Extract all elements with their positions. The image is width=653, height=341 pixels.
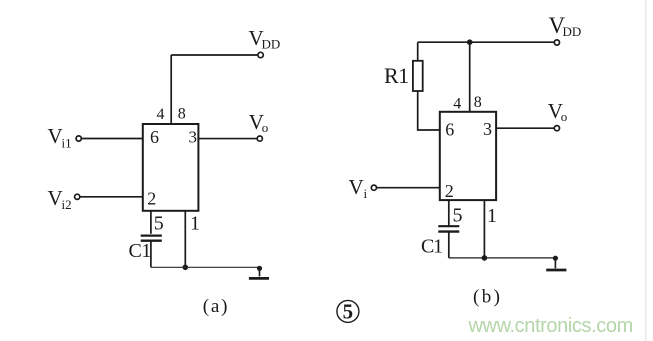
- svg-text:3: 3: [189, 128, 198, 147]
- svg-text:3: 3: [483, 119, 492, 139]
- terminal VDD (b): [554, 40, 559, 45]
- svg-text:V: V: [48, 124, 63, 148]
- svg-text:5: 5: [154, 212, 164, 234]
- figure number 5 circled: [337, 300, 359, 324]
- terminal Vi2: [75, 194, 80, 199]
- ground (b): [546, 256, 566, 270]
- wire Vi1 to pin 6: [82, 138, 143, 140]
- svg-text:6: 6: [445, 120, 454, 140]
- svg-text:i: i: [364, 186, 368, 201]
- wire C1 to bottom rail (b): [448, 232, 450, 258]
- resistor R1 top lead: [417, 42, 419, 61]
- svg-text:5: 5: [343, 300, 354, 324]
- svg-text:8: 8: [474, 94, 482, 111]
- scan edge line right: [645, 0, 647, 341]
- junction pin1/rail (b): [482, 255, 488, 261]
- IC U1 (a): [143, 124, 199, 211]
- svg-text:5: 5: [453, 204, 463, 226]
- svg-text:R1: R1: [384, 63, 409, 88]
- svg-text:www.cntronics.com: www.cntronics.com: [468, 315, 633, 337]
- IC U1 (b): [440, 112, 496, 200]
- svg-text:o: o: [262, 120, 269, 135]
- svg-text:C1: C1: [129, 240, 151, 262]
- svg-text:1: 1: [487, 205, 497, 227]
- capacitor C1 (b) top plate: [438, 225, 459, 227]
- svg-text:2: 2: [445, 181, 454, 201]
- svg-text:(a): (a): [203, 296, 230, 317]
- resistor R1: [413, 61, 423, 91]
- svg-text:8: 8: [178, 106, 186, 123]
- wire pin 1 (b): [483, 200, 485, 258]
- wire C1 to bottom rail (a): [150, 241, 152, 268]
- svg-text:i1: i1: [62, 136, 72, 151]
- capacitor C1 (a) top plate: [141, 235, 162, 237]
- svg-text:(b): (b): [473, 287, 502, 308]
- terminal Vo (b): [554, 126, 559, 131]
- svg-text:i2: i2: [62, 197, 72, 212]
- capacitor C1 (a) bottom plate: [141, 239, 162, 241]
- svg-text:V: V: [48, 186, 63, 210]
- junction pin1/rail (a): [183, 265, 189, 271]
- svg-text:o: o: [561, 109, 568, 124]
- svg-text:DD: DD: [563, 24, 582, 39]
- ground (a): [249, 266, 269, 279]
- svg-text:1: 1: [190, 212, 200, 234]
- resistor R1 bottom lead to pin 6: [418, 91, 440, 130]
- wire bottom rail (b): [449, 257, 553, 259]
- wire Vi2 to pin 2: [80, 196, 143, 198]
- svg-text:4: 4: [157, 106, 165, 123]
- wire bottom rail (a): [151, 266, 259, 268]
- wire pin 3 to Vo (b): [496, 127, 554, 129]
- svg-text:2: 2: [147, 189, 156, 209]
- junction VDD rail / pin8 (b): [467, 39, 473, 45]
- wire pin 4/8 supply (b): [469, 42, 471, 112]
- wire pin 5 (b): [448, 200, 450, 226]
- svg-text:C1: C1: [421, 236, 442, 258]
- svg-text:6: 6: [150, 127, 159, 147]
- svg-text:4: 4: [453, 96, 461, 113]
- wire pin 1 (a): [184, 211, 186, 267]
- terminal Vi (b): [371, 185, 376, 190]
- terminal Vi1: [76, 136, 81, 141]
- terminal VDD (a): [258, 52, 263, 57]
- wire pin 3 to Vo (a): [198, 138, 256, 140]
- terminal Vo (a): [257, 136, 262, 141]
- svg-text:DD: DD: [262, 37, 281, 52]
- svg-text:V: V: [349, 175, 364, 199]
- wire VDD horizontal (a): [171, 54, 257, 56]
- capacitor C1 (b) bottom plate: [438, 230, 459, 232]
- wire pin 5 (a): [150, 211, 152, 234]
- wire VDD rail (b): [418, 41, 554, 43]
- wire Vi to pin 2 (b): [377, 187, 440, 189]
- wire VDD vertical (a) pin 4/8 supply: [170, 55, 172, 124]
